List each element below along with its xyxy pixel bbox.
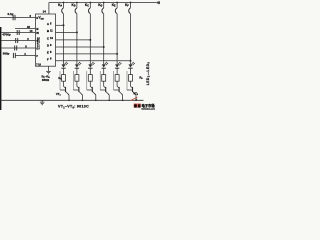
node row D x col 4 — [103, 46, 105, 48]
transistor VT4 — [100, 71, 110, 101]
capacitor 0.1u — [13, 15, 15, 20]
capacitor 4700p — [17, 30, 19, 35]
resistor R1 — [62, 75, 66, 82]
IC right pin numbers — [50, 21, 53, 60]
wire pin 2 — [1, 40, 35, 42]
svg-text:LED1—LED6: LED1—LED6 — [146, 61, 151, 85]
svg-text:0.1µ: 0.1µ — [8, 12, 14, 16]
wire R5 to VT5 — [116, 81, 118, 86]
transistor VT3 — [87, 71, 97, 101]
resistor R6 — [129, 75, 133, 82]
LED4 — [102, 62, 109, 75]
node row F x col 6 — [130, 60, 132, 62]
switch KE — [115, 2, 118, 65]
svg-text:+B: +B — [156, 1, 160, 5]
capacitor C4 — [15, 46, 17, 51]
capacitor 300p — [13, 53, 15, 58]
watermark logo dzsc — [130, 97, 155, 111]
svg-text:7 16: 7 16 — [36, 64, 41, 67]
row A pin 5 — [56, 24, 64, 26]
wire pin 4 — [15, 55, 35, 57]
node row C x col 3 — [89, 39, 91, 41]
wire pin 32 — [15, 28, 36, 30]
node row A x col 1 — [63, 24, 65, 26]
IC inner left pin names — [36, 17, 41, 67]
bottom ground rail — [0, 99, 144, 101]
wire R3 to VT3 — [89, 81, 91, 86]
switch KC — [88, 2, 91, 65]
svg-text:www.dzsc.com: www.dzsc.com — [141, 109, 155, 110]
IC right pin letters A-F — [47, 22, 50, 61]
wire pin 5L — [1, 47, 35, 49]
resistor R4 — [102, 75, 106, 82]
background — [0, 0, 160, 110]
LED6 — [128, 62, 135, 75]
svg-text:14: 14 — [43, 9, 47, 13]
+B top rail — [49, 2, 156, 4]
svg-text:电子市场: 电子市场 — [142, 103, 156, 108]
wire pin 3 — [0, 17, 36, 19]
wire R4 to VT4 — [103, 81, 105, 86]
svg-text:F: F — [47, 57, 49, 61]
LED1 — [61, 62, 68, 75]
resistor R5 — [115, 75, 119, 82]
node row E x col 5 — [116, 53, 118, 55]
switch KA — [62, 2, 65, 65]
svg-text:4700p: 4700p — [2, 33, 10, 37]
svg-text:R: R — [36, 17, 38, 20]
svg-text:库: 库 — [137, 104, 141, 108]
row E pin 8 — [56, 53, 118, 55]
IC left pin wires and capacitors — [0, 15, 36, 58]
row B pin 11 — [56, 31, 77, 33]
row D pin 9 — [56, 46, 104, 48]
svg-text:M: M — [36, 28, 38, 31]
node row B x col 2 — [76, 31, 78, 33]
ground symbol on rail — [40, 100, 45, 104]
resistor R3 — [88, 75, 92, 82]
wire R2 to VT2 — [76, 81, 78, 86]
switch KB — [75, 2, 78, 65]
svg-text:VT1~VT6: 9013C: VT1~VT6: 9013C — [58, 105, 89, 110]
LED5 — [115, 62, 122, 75]
wire R1 to VT1 — [63, 81, 65, 86]
svg-text:BI: BI — [36, 32, 39, 35]
svg-text:维: 维 — [134, 104, 137, 108]
pin 14 wire to +B rail — [48, 3, 50, 15]
LED3 — [88, 62, 95, 75]
IC ground pin — [46, 66, 51, 74]
IC U1 LC7232 box — [36, 14, 56, 66]
resistor R2 — [75, 75, 79, 82]
transistor VT1 — [60, 71, 70, 101]
wire pin 13 — [1, 32, 35, 34]
transistor VT5 — [114, 71, 124, 101]
svg-text:300p: 300p — [3, 52, 10, 56]
svg-text:E: E — [47, 51, 49, 55]
left crop border bar — [0, 27, 1, 110]
svg-text:C: C — [36, 47, 38, 50]
transistor VT6 — [127, 71, 137, 101]
transistor VT2 — [73, 71, 83, 101]
LED2 — [75, 62, 82, 75]
switch KD — [102, 2, 105, 65]
row C pin 10 — [56, 39, 91, 41]
wire R6 to VT6 — [130, 81, 132, 86]
left pin numbers — [24, 14, 33, 56]
switch KF — [129, 2, 132, 65]
svg-text:330Ω: 330Ω — [42, 78, 50, 82]
capacitor C3 — [16, 38, 18, 43]
row F pin 6 — [56, 60, 131, 62]
